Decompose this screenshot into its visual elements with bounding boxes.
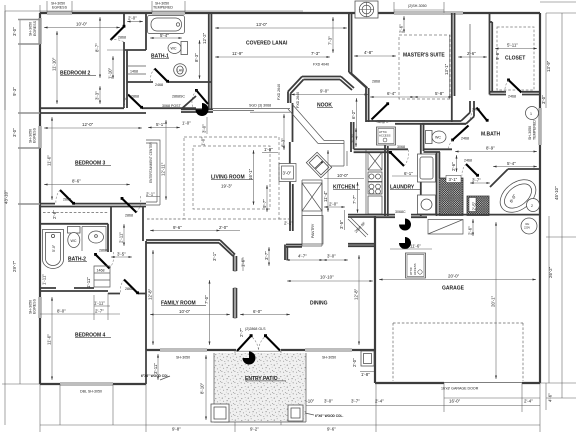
svg-text:3'-11": 3'-11" bbox=[153, 363, 158, 374]
pacman garage 2 bbox=[399, 237, 411, 249]
door WC: leaf+arc bbox=[453, 126, 469, 141]
svg-text:1'-11": 1'-11" bbox=[86, 277, 91, 288]
svg-text:9'-6": 9'-6" bbox=[173, 225, 182, 230]
wall closet bottom y=50 bbox=[124, 49, 146, 51]
svg-text:2'-0": 2'-0" bbox=[329, 202, 338, 207]
dim 1'-6" vert bbox=[242, 257, 244, 271]
fixture mbath oval tub bbox=[494, 173, 542, 219]
svg-text:9'-6": 9'-6" bbox=[327, 427, 336, 432]
dim 2'-6" vert workbench bbox=[472, 219, 474, 236]
svg-text:6'-4": 6'-4" bbox=[387, 91, 396, 96]
dim 3'-5" vert kitchen bbox=[344, 210, 346, 230]
svg-text:7'-3": 7'-3" bbox=[311, 51, 320, 56]
dim 8'-9" bbox=[455, 151, 537, 153]
svg-text:SH-3050: SH-3050 bbox=[176, 356, 190, 360]
dim 2'-11" hall vert bbox=[123, 224, 125, 246]
window hall top small bbox=[443, 12, 463, 14]
svg-text:2'-5": 2'-5" bbox=[472, 201, 477, 210]
window bedroom2 left bbox=[39, 18, 41, 44]
dim 1'-11" bbox=[94, 305, 110, 307]
wall master right x=453 bbox=[452, 13, 455, 122]
svg-text:2'-1": 2'-1" bbox=[284, 221, 293, 226]
label 6x6 WOOD COL right bbox=[305, 413, 314, 415]
svg-text:8'-10": 8'-10" bbox=[200, 382, 205, 394]
wall family top y=241 bbox=[146, 240, 220, 243]
dim master 4'-8" bbox=[354, 55, 396, 57]
svg-text:10'-10": 10'-10" bbox=[320, 275, 334, 280]
label 3'-1" on hatch bbox=[446, 176, 461, 183]
svg-text:2868: 2868 bbox=[125, 214, 133, 218]
door bedroom2 lower: leaf+arc bbox=[128, 95, 142, 108]
fixture bath2 vanity bbox=[82, 227, 106, 252]
svg-text:TEMPERED: TEMPERED bbox=[153, 6, 173, 10]
svg-text:FXD 4040: FXD 4040 bbox=[313, 63, 329, 67]
circle tag 1 right wall bbox=[526, 107, 539, 120]
dim nook 6'-2" vert bbox=[356, 98, 358, 140]
pacman living bbox=[196, 103, 209, 116]
svg-text:SH-3050: SH-3050 bbox=[29, 22, 33, 36]
wall dining/kitchen pass-through right bbox=[348, 244, 374, 246]
wall hall west x=352 bbox=[351, 122, 354, 152]
svg-text:3068C: 3068C bbox=[395, 210, 406, 214]
svg-text:6"X6" WOOD COL.: 6"X6" WOOD COL. bbox=[315, 414, 343, 418]
wall nook/master x=367 bbox=[366, 88, 369, 123]
svg-text:LAV: LAV bbox=[177, 69, 184, 73]
window DBL SH-3050 bedroom4 bottom bbox=[60, 383, 113, 385]
door bedroom3 top: leaf+arc bbox=[197, 91, 209, 105]
kitchen pantry bbox=[302, 216, 323, 245]
door mbath entry leaf bbox=[477, 108, 488, 121]
svg-text:2868: 2868 bbox=[372, 80, 380, 84]
patio column right bbox=[288, 405, 303, 421]
svg-text:3'-1": 3'-1" bbox=[212, 252, 217, 261]
svg-text:26'-2": 26'-2" bbox=[548, 266, 553, 278]
svg-text:3'-5": 3'-5" bbox=[117, 252, 126, 257]
fixture dryer bbox=[418, 195, 436, 214]
door master: leaf+arc bbox=[372, 104, 388, 120]
svg-text:SH-3050: SH-3050 bbox=[528, 126, 532, 140]
kitchen corner sink bbox=[306, 152, 331, 178]
svg-text:2868: 2868 bbox=[63, 198, 71, 202]
svg-text:3'-0": 3'-0" bbox=[541, 95, 546, 104]
svg-text:3'-0": 3'-0" bbox=[202, 124, 207, 133]
entry patio stipple bbox=[214, 353, 306, 422]
svg-text:13'-0": 13'-0" bbox=[256, 22, 268, 27]
svg-text:2868: 2868 bbox=[118, 36, 126, 40]
entertainment center strip bbox=[146, 140, 160, 205]
dim dining 10'-10" bbox=[287, 280, 373, 282]
dim 8'-10" vert patio bbox=[205, 355, 207, 420]
wall hall/linen x=127 bbox=[126, 50, 128, 108]
svg-text:12'-8": 12'-8" bbox=[354, 288, 359, 300]
svg-text:4'-7": 4'-7" bbox=[298, 254, 307, 259]
svg-text:MASTER'S SUITE: MASTER'S SUITE bbox=[403, 53, 445, 59]
entry double door leaves bbox=[237, 336, 251, 351]
svg-text:11'-0": 11'-0" bbox=[47, 334, 52, 345]
svg-text:2'-0": 2'-0" bbox=[352, 358, 357, 367]
svg-text:PANTRY: PANTRY bbox=[311, 223, 315, 238]
svg-text:1'-8": 1'-8" bbox=[361, 372, 370, 377]
svg-text:2'-0": 2'-0" bbox=[219, 225, 228, 230]
wall family/dining bottom bbox=[146, 349, 376, 351]
svg-text:1'-10": 1'-10" bbox=[108, 67, 113, 79]
svg-text:DBL SH-3050: DBL SH-3050 bbox=[80, 390, 102, 394]
wall laundry right x=422 bbox=[421, 124, 424, 216]
dim kitchen 10'-0" bbox=[324, 178, 364, 180]
svg-text:10'-0": 10'-0" bbox=[337, 173, 349, 178]
svg-text:11'-9": 11'-9" bbox=[232, 51, 243, 56]
svg-text:1'-0": 1'-0" bbox=[182, 121, 191, 126]
wall top exterior bbox=[40, 12, 540, 14]
wall foyer x=234 bbox=[234, 255, 237, 319]
door bath2: leaf+arc bbox=[96, 255, 110, 269]
shower hatch L-shape bbox=[439, 178, 463, 216]
window SH-3050 family bottom bbox=[160, 349, 207, 351]
svg-text:ACCESS: ACCESS bbox=[379, 134, 391, 138]
svg-text:6'-0": 6'-0" bbox=[253, 309, 262, 314]
dim bedroom3 8'-6" bbox=[44, 184, 130, 186]
svg-text:5'-0": 5'-0" bbox=[52, 244, 56, 252]
svg-text:16'-1": 16'-1" bbox=[248, 168, 253, 180]
svg-text:EGRESS: EGRESS bbox=[33, 127, 37, 143]
door bedroom2 upper: leaf+arc bbox=[111, 27, 125, 41]
svg-text:1'-11": 1'-11" bbox=[94, 301, 105, 306]
dim 4'-7" bbox=[286, 259, 323, 261]
svg-text:3'-7": 3'-7" bbox=[264, 251, 269, 260]
circle tag 2 right wall bbox=[527, 199, 540, 212]
nook bay right diagonal bbox=[340, 77, 354, 91]
svg-text:2868: 2868 bbox=[131, 95, 139, 99]
svg-text:2468: 2468 bbox=[464, 159, 472, 163]
patio corner column bbox=[361, 351, 374, 366]
pacman entry bbox=[243, 352, 256, 365]
dim 3'-3" vert kitchen top bbox=[355, 128, 357, 147]
svg-text:2'-0": 2'-0" bbox=[128, 16, 137, 21]
svg-text:12'-2": 12'-2" bbox=[202, 32, 207, 44]
wall closet top nub bbox=[490, 21, 493, 23]
dim 1'-10" hall bbox=[112, 56, 114, 79]
svg-text:(2)2868 GLS: (2)2868 GLS bbox=[245, 327, 266, 331]
wall closet bottom y=93 bbox=[490, 92, 541, 95]
dim 2'-6" vert shower bbox=[456, 155, 458, 172]
wall lanai right x=350 bbox=[349, 13, 352, 74]
dim 11'-6" bbox=[390, 248, 432, 250]
door bedroom3 bottom: leaf+arc bbox=[60, 190, 74, 204]
wall garage left bbox=[374, 216, 376, 383]
svg-text:2468: 2468 bbox=[461, 137, 469, 141]
dim closet 9'-6" vert bbox=[469, 24, 471, 90]
window (2)SH-3050 master top bbox=[394, 12, 444, 14]
svg-text:1: 1 bbox=[530, 112, 532, 116]
dim 3'-7" shower bbox=[470, 182, 490, 184]
door laundry: leaf+arc bbox=[391, 153, 405, 167]
svg-text:9'-7": 9'-7" bbox=[262, 199, 267, 208]
fixture range 4 burners bbox=[368, 172, 382, 194]
dim 8'-0" row bbox=[40, 293, 108, 320]
svg-text:220V: 220V bbox=[524, 226, 530, 230]
wall living top y=110 bbox=[181, 109, 213, 112]
wall living top-left diagonal bbox=[181, 96, 196, 109]
wall family diagonal bbox=[219, 240, 235, 256]
corner pantry diagonal 2868BF bbox=[348, 217, 368, 237]
wall living right x=291 bbox=[290, 103, 293, 231]
dim nook 9'-0" bbox=[291, 94, 368, 96]
dim 3'-11" vert bbox=[157, 354, 159, 380]
wall WC top y=124 bbox=[422, 123, 466, 125]
door bedroom4: leaf+arc bbox=[124, 280, 138, 294]
svg-text:9'-0": 9'-0" bbox=[320, 89, 329, 94]
svg-text:5'-1": 5'-1" bbox=[156, 122, 165, 127]
door shower room: leaf+arc bbox=[466, 164, 478, 176]
dashed ceiling break family/living bbox=[147, 218, 290, 220]
svg-text:3'-7": 3'-7" bbox=[472, 178, 481, 183]
svg-text:8'-3": 8'-3" bbox=[194, 53, 199, 62]
svg-text:1'-0": 1'-0" bbox=[264, 147, 273, 152]
svg-text:11'-4": 11'-4" bbox=[323, 191, 328, 202]
wall laundry top y=150 bbox=[354, 149, 408, 152]
window SH-3050 dining bottom bbox=[305, 349, 352, 351]
svg-text:9'-6": 9'-6" bbox=[495, 51, 500, 60]
svg-text:10'-0": 10'-0" bbox=[76, 22, 88, 27]
wall mbath vestibule diagonal bbox=[461, 113, 474, 124]
wall bedroom2/bedroom3 double band bbox=[40, 107, 196, 109]
wall bath1 bottom y=82 bbox=[127, 81, 211, 83]
nook bay top bbox=[302, 77, 341, 80]
svg-text:2468: 2468 bbox=[508, 95, 516, 99]
svg-text:3'-0": 3'-0" bbox=[283, 171, 292, 176]
svg-text:29'-7": 29'-7" bbox=[12, 260, 17, 272]
dim kitchen 2'-0" bbox=[324, 206, 345, 208]
window SH-3050 tempered bath1 top bbox=[152, 12, 185, 14]
living dashed ceiling rects bbox=[184, 137, 279, 219]
svg-text:45'-10": 45'-10" bbox=[554, 186, 559, 200]
svg-text:11'-0": 11'-0" bbox=[47, 155, 52, 166]
svg-text:3'-0": 3'-0" bbox=[324, 399, 333, 404]
svg-text:7'-3": 7'-3" bbox=[328, 36, 333, 45]
dim closet 5'-11" bbox=[495, 48, 537, 50]
dim bath1 8'-3" bbox=[199, 40, 201, 79]
svg-text:WC: WC bbox=[171, 47, 177, 51]
svg-text:19'-3": 19'-3" bbox=[221, 184, 233, 189]
dim master 5'-8" bbox=[414, 96, 452, 98]
fixture bath1 pedestal sink bbox=[174, 64, 187, 77]
svg-text:TEMPERED: TEMPERED bbox=[533, 120, 537, 140]
dim 5'-1" bbox=[148, 127, 180, 129]
kitchen left counter band bbox=[302, 180, 322, 246]
dim 6'-1" bbox=[392, 175, 420, 177]
dim closet 2'-0" bbox=[127, 21, 143, 23]
svg-text:SGD (3) 3068: SGD (3) 3068 bbox=[249, 104, 271, 108]
kitchen diagonal counter bbox=[288, 104, 347, 166]
window bedroom3 left bbox=[39, 126, 41, 148]
kitchen right counter front bbox=[365, 150, 367, 214]
svg-text:3068 POST: 3068 POST bbox=[162, 104, 182, 108]
svg-text:7'-0": 7'-0" bbox=[204, 295, 209, 304]
dim bedroom3 12'-0" bbox=[44, 127, 142, 129]
svg-text:WC: WC bbox=[435, 136, 441, 140]
svg-text:3'-1": 3'-1" bbox=[449, 177, 458, 182]
entry door header line bbox=[236, 350, 281, 352]
closet dashed shelf bbox=[497, 27, 534, 90]
svg-text:2868SC: 2868SC bbox=[172, 95, 185, 99]
svg-text:12'-8": 12'-8" bbox=[148, 288, 153, 300]
wall linen shelf lines bbox=[127, 66, 146, 74]
svg-text:2'-11": 2'-11" bbox=[119, 232, 124, 243]
wall closet left x=491 bbox=[490, 13, 493, 95]
dim kitchen 11'-4" vert bbox=[327, 150, 329, 212]
svg-text:EGRESS: EGRESS bbox=[52, 6, 68, 10]
svg-text:16'-0": 16'-0" bbox=[449, 399, 461, 404]
dim 16'-1" vert bbox=[253, 150, 255, 205]
dim 12'-11" vert bbox=[165, 120, 167, 200]
svg-text:COVERED LANAI: COVERED LANAI bbox=[246, 41, 288, 47]
fixture exterior grill bbox=[355, 1, 378, 18]
wall closet/bath1 divider x=146 bbox=[145, 13, 147, 50]
wall bedroom4 bottom bbox=[40, 383, 146, 385]
wall lanai diagonal to nook bbox=[349, 72, 368, 88]
door hall: leaf+arc bbox=[122, 199, 137, 213]
svg-text:3'-3": 3'-3" bbox=[95, 91, 100, 100]
svg-text:3'-0": 3'-0" bbox=[327, 254, 336, 259]
wall bath2 bottom / bed4 top bbox=[40, 288, 108, 291]
wall shower left x=438 bbox=[437, 152, 440, 216]
wall WC bottom y=150.5 bbox=[424, 149, 453, 152]
wall master bottom y=122 bbox=[395, 121, 466, 124]
svg-text:11'-10": 11'-10" bbox=[52, 57, 57, 71]
fixture bath1 tub bbox=[148, 16, 185, 34]
fixture bath2 toilet bbox=[68, 227, 81, 248]
dim family 7'-0" vert bbox=[209, 280, 211, 345]
svg-text:2'-6": 2'-6" bbox=[467, 51, 476, 56]
svg-text:9'-2": 9'-2" bbox=[250, 427, 259, 432]
svg-text:RH: RH bbox=[526, 222, 530, 226]
dim 3'-5" bath2 door bbox=[111, 256, 132, 258]
dim family 12'-8" vert bbox=[152, 250, 154, 345]
svg-text:8'-9": 8'-9" bbox=[486, 146, 495, 151]
svg-text:8'-6": 8'-6" bbox=[72, 179, 81, 184]
dim 2'-7" row bbox=[94, 313, 120, 315]
hall dashed attic line bbox=[43, 212, 108, 214]
dim right outer cols bbox=[546, 13, 576, 398]
svg-text:CLOSET: CLOSET bbox=[505, 56, 525, 62]
svg-text:6'-2": 6'-2" bbox=[351, 110, 356, 119]
label ATTIC ACCESS box bbox=[377, 127, 396, 145]
svg-text:13'-1": 13'-1" bbox=[444, 63, 449, 75]
svg-text:10'-0": 10'-0" bbox=[179, 309, 191, 314]
dim 1'-0" right bbox=[262, 152, 278, 154]
dim 5'-4" tub bbox=[493, 166, 537, 168]
dim master 6'-4" bbox=[370, 96, 414, 98]
svg-text:43'-10": 43'-10" bbox=[4, 190, 9, 204]
master dashed ceiling rect bbox=[399, 35, 450, 99]
svg-text:FXD 2640: FXD 2640 bbox=[277, 84, 281, 100]
svg-text:2468: 2468 bbox=[155, 83, 163, 87]
dim master 13'-1" vert bbox=[449, 35, 451, 99]
dim bedroom3 11'-0" bbox=[51, 117, 53, 200]
svg-text:WC: WC bbox=[71, 239, 77, 243]
svg-text:4'-6": 4'-6" bbox=[548, 393, 553, 402]
fixture washer bbox=[418, 154, 436, 182]
label ATTIC ACCESS garage box bbox=[406, 253, 426, 278]
svg-text:2'-6": 2'-6" bbox=[468, 226, 473, 235]
svg-text:SH-3050: SH-3050 bbox=[322, 356, 336, 360]
svg-text:8'-0": 8'-0" bbox=[57, 309, 66, 314]
svg-text:2'-4": 2'-4" bbox=[524, 399, 533, 404]
window SH-3050 tempered right mbath bbox=[539, 108, 541, 145]
label 2'-5" on hatch bbox=[469, 198, 476, 212]
wall hall top y=122 kitchen side bbox=[366, 120, 395, 122]
svg-text:7'-7": 7'-7" bbox=[352, 195, 357, 204]
wall bath1/lanai x=210 bbox=[209, 13, 212, 110]
svg-text:3068: 3068 bbox=[397, 145, 405, 149]
label 5'-4" tub bbox=[150, 37, 182, 39]
dim left outer col bbox=[2, 11, 40, 425]
dim 9'-6" family top bbox=[150, 230, 220, 232]
svg-text:12'-11": 12'-11" bbox=[161, 162, 166, 176]
svg-text:4'-8": 4'-8" bbox=[364, 50, 373, 55]
wall bath2 top y=224 bbox=[40, 223, 108, 225]
svg-text:9'-3": 9'-3" bbox=[12, 87, 17, 96]
window bedroom4 left bbox=[39, 297, 41, 318]
fixture cabinet bbox=[368, 196, 382, 214]
dim lanai 11'-9" bbox=[215, 56, 330, 58]
svg-text:1'-6": 1'-6" bbox=[241, 258, 246, 267]
dim lanai 13'-0" bbox=[215, 27, 347, 29]
dim 2'-0" family top bbox=[220, 230, 240, 232]
door bath1: leaf+arc bbox=[155, 69, 168, 82]
dim master 2'-6" vert bbox=[403, 16, 405, 33]
svg-text:2: 2 bbox=[531, 204, 533, 208]
garage door line bbox=[444, 382, 522, 384]
wall bedroom2 right / closet bbox=[123, 13, 125, 108]
svg-text:16'x8' GARAGE DOOR: 16'x8' GARAGE DOOR bbox=[441, 387, 479, 391]
svg-text:1'-11": 1'-11" bbox=[42, 274, 47, 285]
door closet: leaf+arc bbox=[509, 80, 522, 93]
nook bay left wall bbox=[288, 92, 291, 104]
svg-text:3'-0": 3'-0" bbox=[12, 27, 17, 36]
sliding door SGD (3) 3068 bbox=[213, 109, 290, 113]
dim 2'-6" hall bbox=[458, 56, 487, 58]
svg-text:5'-11": 5'-11" bbox=[507, 43, 518, 48]
kitchen base cabinet X bbox=[302, 183, 322, 211]
svg-text:6'-1": 6'-1" bbox=[404, 171, 413, 176]
dim bedroom2 11'-10" bbox=[56, 31, 58, 104]
svg-text:2'-4": 2'-4" bbox=[375, 399, 384, 404]
patio column left bbox=[211, 404, 229, 422]
svg-text:EGRESS: EGRESS bbox=[33, 298, 37, 314]
bottom dim rows bbox=[40, 406, 540, 426]
fixture bath2 tub bbox=[43, 230, 64, 269]
wall hall bottom y=293 bbox=[108, 293, 146, 295]
dim 6'-2" vert right bbox=[283, 114, 285, 150]
svg-text:EGRESS: EGRESS bbox=[33, 20, 37, 36]
wall right exterior bbox=[539, 13, 541, 383]
svg-text:11'-6": 11'-6" bbox=[410, 244, 421, 249]
svg-text:2'-7": 2'-7" bbox=[95, 309, 104, 314]
svg-text:2868: 2868 bbox=[125, 287, 133, 291]
svg-text:9'-8": 9'-8" bbox=[172, 427, 181, 432]
wall left exterior bbox=[39, 13, 41, 384]
svg-text:8'-7": 8'-7" bbox=[95, 43, 100, 52]
wall bath2 right x=108 bbox=[108, 207, 111, 253]
tub platform diagonal bbox=[490, 169, 540, 187]
svg-text:2'-7": 2'-7" bbox=[239, 328, 244, 337]
svg-text:2'-6": 2'-6" bbox=[52, 210, 57, 219]
dim kitchen 7'-7" vert bbox=[357, 182, 359, 213]
svg-text:GARAGE: GARAGE bbox=[442, 286, 465, 292]
svg-text:12'-0": 12'-0" bbox=[82, 122, 94, 127]
dim garage 20'-0" bbox=[379, 279, 536, 281]
